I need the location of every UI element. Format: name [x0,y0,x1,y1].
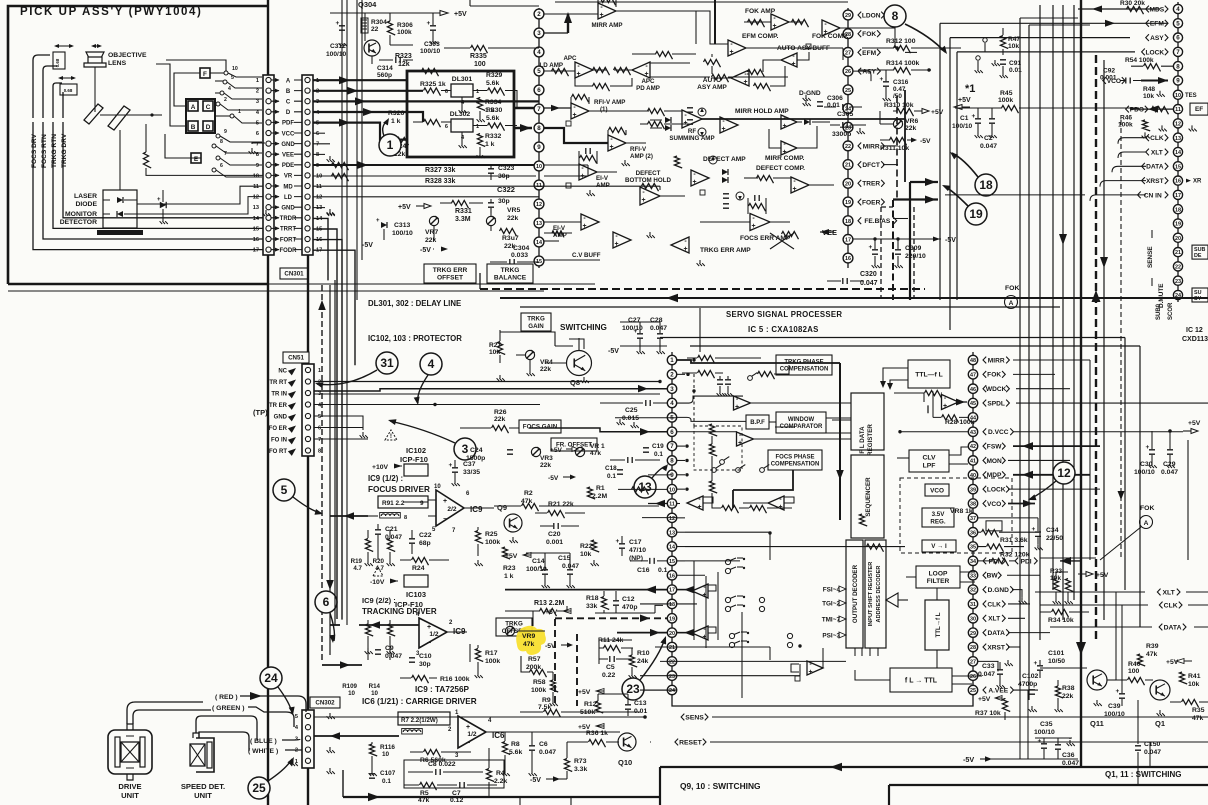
svg-text:XRST: XRST [1146,178,1164,185]
svg-text:100/10: 100/10 [326,51,347,58]
svg-text:0.047: 0.047 [978,671,995,678]
svg-text:+: + [616,538,620,545]
resistor R73 3.3k [564,759,572,772]
callout 23 arrow [640,638,665,680]
svg-text:AUTO ASY BUFF: AUTO ASY BUFF [777,45,830,52]
svg-text:5: 5 [295,714,298,720]
wire VR4 to Q8 base [545,362,566,364]
heavy dashed row y289 [480,288,925,290]
svg-text:APC: APC [641,78,655,85]
connector CN302 strip [302,710,314,768]
svg-text:30p: 30p [419,661,431,668]
svg-text:7: 7 [1176,49,1180,56]
pot VR7 22k [429,216,438,225]
callout 31 [376,352,398,374]
svg-text:C12: C12 [622,596,635,603]
svg-text:IC9 : TA7256P: IC9 : TA7256P [415,685,470,694]
mirror 2 (beam splitter) [108,106,130,130]
wire R2 47k row [522,503,539,511]
svg-text:VCC: VCC [282,131,295,137]
svg-text:R327 33k: R327 33k [425,167,455,174]
svg-text:R46: R46 [1120,114,1132,121]
svg-text:29: 29 [970,631,976,637]
callout 8 [884,5,906,27]
svg-text:Q1: Q1 [1155,719,1165,728]
svg-text:*1: *1 [965,83,975,95]
svg-text:1: 1 [476,89,479,95]
wire r18 c12 rail [595,612,655,614]
right mid box outline [1187,440,1189,560]
wire tracking coil drive [62,92,64,118]
wire pin7 8 [212,144,216,148]
wire focus coil return [43,66,57,118]
svg-text:WINDOW: WINDOW [788,417,815,423]
wires xlt clk data [1035,591,1145,593]
svg-text:C.V BUFF: C.V BUFF [572,252,601,259]
resistor R327 33k [332,162,349,170]
svg-text:-5V: -5V [608,348,619,355]
resistor R18 33k [601,597,609,610]
svg-text:FOK: FOK [862,31,876,38]
wire pin5 row left [615,417,677,419]
svg-text:R38: R38 [1062,685,1075,692]
svg-text:R54 100k: R54 100k [1125,57,1154,64]
capacitor C316 0.47/50 [883,82,889,86]
svg-text:AMP: AMP [596,182,610,189]
svg-text:0.1: 0.1 [607,473,616,480]
svg-text:10: 10 [669,487,675,493]
thick step wire tracking to pin16-ish [322,664,362,666]
svg-text:5: 5 [537,68,541,75]
svg-text:1: 1 [238,109,241,115]
svg-text:R312 100: R312 100 [886,38,916,45]
svg-text:UNIT: UNIT [121,791,139,800]
svg-text:SPEED DET.: SPEED DET. [181,782,225,791]
capacitor C306 0.01 [817,102,823,106]
objective lens [84,52,106,67]
svg-text:17: 17 [253,248,259,254]
wire pin25 avee [1013,689,1038,691]
svg-text:30: 30 [970,616,976,622]
svg-text:D.GND: D.GND [988,587,1009,594]
resistor R57 200k [530,669,547,677]
op-amp after mirror hold [781,115,797,129]
svg-text:GND: GND [274,414,288,420]
svg-text:ASY AMP: ASY AMP [697,84,727,91]
dbh wires [642,183,659,191]
actuator arrows [56,45,72,47]
svg-text:R48: R48 [1143,86,1155,93]
capacitor C313 100/10 diode [381,222,387,228]
svg-text:R36 1k: R36 1k [586,730,608,737]
highlighted pot VR9 47k [516,626,546,655]
svg-text:1/2: 1/2 [429,631,438,638]
wire bus corner top right [1020,17,1078,19]
svg-text:37: 37 [970,516,976,522]
svg-text:FOCUS DRIVER: FOCUS DRIVER [368,485,430,494]
IC5 internal switch row [712,468,717,473]
svg-text:(1): (1) [600,106,608,113]
IC5 wire pin2 to network [677,373,685,375]
svg-text:FSW: FSW [987,443,1002,450]
capacitor C36 0.047 [1055,745,1061,749]
callout 18 [975,174,997,196]
svg-text:46: 46 [970,387,976,393]
svg-text:47k: 47k [1146,651,1158,658]
svg-text:5: 5 [318,414,321,420]
capacitor C16 0.1 [650,558,654,564]
focus driver op amp IC9 big [436,490,464,526]
svg-text:OBJECTIVE: OBJECTIVE [108,52,147,59]
tracking actuator coil 0.68 [60,84,77,95]
svg-text:C34: C34 [1046,527,1059,534]
svg-text:+: + [738,440,742,447]
resistor R21 22k [548,510,565,518]
svg-text:RFI-V: RFI-V [630,146,647,153]
svg-text:C9: C9 [385,645,394,652]
resistor R36 1k [589,739,606,747]
svg-text:15: 15 [669,559,675,565]
svg-text:8: 8 [537,125,541,132]
wire cn51 rows to right [314,381,660,383]
wire pin39 lock [1008,488,1100,490]
svg-text:RFI-V AMP: RFI-V AMP [594,99,625,106]
svg-text:-5V: -5V [362,242,373,249]
svg-text:21: 21 [1175,250,1181,256]
svg-text:C22: C22 [419,532,432,539]
resistor R4 2.2k [486,769,494,782]
svg-text:C316: C316 [893,79,909,86]
wire pin13 long [685,531,770,533]
svg-text:R31 3.6k: R31 3.6k [1000,537,1028,544]
svg-text:31: 31 [380,356,394,370]
svg-text:100k: 100k [531,687,546,694]
svg-text:LDON: LDON [862,12,881,19]
svg-text:27: 27 [845,51,851,57]
capacitor C19 0.1 [643,448,649,452]
svg-text:+: + [599,12,603,19]
svg-text:R12: R12 [584,701,597,708]
bottom right box [889,784,1208,786]
svg-text:LD AMP: LD AMP [540,62,564,69]
wire vertical drops right mid [1115,592,1117,680]
svg-text:C16: C16 [637,567,650,574]
thick up arrow near pin3 [567,14,569,33]
svg-text:R41: R41 [1188,673,1201,680]
svg-text:22k: 22k [425,237,437,244]
svg-text:+: + [972,113,976,120]
svg-text:1: 1 [256,78,259,84]
R91 2.2 box with coil [378,496,428,508]
svg-text:4: 4 [1176,6,1180,13]
svg-text:100/10: 100/10 [952,123,973,130]
monitor detector symbol [117,211,123,217]
svg-text:R16 100k: R16 100k [440,676,470,683]
svg-text:C19: C19 [652,443,664,450]
wire pin25 row gnd [852,89,853,91]
IC5 dashed vline pin2 [693,374,695,426]
svg-text:9: 9 [256,163,259,169]
svg-text:100k: 100k [1118,121,1133,128]
capacitor C7 0.12 [460,782,464,788]
svg-text:R21 22k: R21 22k [548,501,574,508]
IC5 internal block BPF [746,415,769,429]
svg-text:6: 6 [445,89,448,95]
svg-text:R58: R58 [533,679,546,686]
svg-text:SY: SY [1194,296,1202,302]
svg-text:R10: R10 [637,650,650,657]
capacitor C91 0.01 [1000,60,1006,64]
svg-text:R116: R116 [380,744,395,751]
svg-text:+: + [449,462,453,469]
wire row R328 [313,175,536,177]
svg-text:+: + [427,20,431,27]
thick arrow into pin11 pdo [1130,108,1173,110]
svg-text:TRKG DRV: TRKG DRV [61,133,68,168]
resistor R19 R20 4.7 [365,539,373,552]
label CN51 [283,352,309,363]
svg-text:Q8: Q8 [570,378,580,387]
svg-text:IC 5 : CXA1082AS: IC 5 : CXA1082AS [748,325,819,334]
thick wire C to delay line [313,100,539,102]
wire pin29 data row [1008,632,1050,634]
svg-text:10: 10 [1175,93,1181,99]
label CN302 [310,697,340,708]
svg-text:+: + [427,624,431,631]
svg-text:7.5k: 7.5k [538,704,551,711]
svg-text:5.6k: 5.6k [509,749,522,756]
resistor R306 100k [387,21,395,35]
beam path horizontal [100,114,152,116]
svg-text:C314: C314 [377,65,393,72]
svg-text:R3u7: R3u7 [502,235,519,242]
svg-text:13: 13 [669,530,675,536]
resistor R334 1k vertical [477,98,485,111]
wire pin46 wdck long [1016,388,1070,390]
vertical main bus x=308 below CN301 [307,255,309,805]
svg-text:COMPENSATION: COMPENSATION [780,367,829,373]
svg-text:R35: R35 [1192,707,1205,714]
wire pin13 hook to EIV amp [544,232,572,234]
pin column left of RF IC pins 2-15 [534,9,544,19]
svg-text:34: 34 [970,559,976,565]
svg-text:BW: BW [987,573,999,580]
op-amp MIRR COMP [781,141,797,155]
gnd under VR7 area [327,210,335,216]
callout 5 arrow [293,497,321,513]
svg-text:5: 5 [1176,20,1180,27]
svg-text:1 k: 1 k [391,118,401,125]
wire pin3 long row [544,32,568,34]
op-amp APC LD AMP [575,62,593,78]
capacitor C15 0.047 [567,570,573,574]
dashed box around C309 area [880,207,882,299]
svg-text:47k: 47k [590,450,601,457]
thick wire PDF [313,123,407,140]
rfiv2 wires [544,128,608,143]
svg-text:SENSE: SENSE [1147,246,1154,268]
protector warn triangle [385,430,397,440]
resistor R13 2.2M [540,608,557,616]
svg-text:22: 22 [669,659,675,665]
IC5 wire trkg comp to fl register [832,362,840,364]
svg-text:0.047: 0.047 [1144,749,1161,756]
svg-text:REGISTER: REGISTER [867,424,874,456]
svg-text:30p: 30p [498,173,510,180]
callout 31 arrow [317,370,377,385]
svg-text:R20: R20 [373,558,385,565]
svg-text:22k: 22k [494,416,506,423]
wire pin38 vco thick [1008,503,1035,505]
vertical bus x=1040 [1039,5,1041,640]
svg-text:1500p: 1500p [466,455,485,462]
capacitor C18 0.1 [617,470,623,474]
svg-text:R22: R22 [580,543,593,550]
svg-text:33/35: 33/35 [463,469,480,476]
svg-text:+: + [614,241,618,248]
svg-text:C: C [206,104,211,111]
svg-text:PDO: PDO [1130,106,1144,113]
svg-text:10k: 10k [1188,681,1200,688]
transistor Q9 [504,514,522,532]
svg-text:( BLUE ): ( BLUE ) [250,738,277,745]
svg-text:C36: C36 [1062,752,1075,759]
transistor Q1 [1150,680,1170,700]
svg-text:C309: C309 [905,245,921,252]
vertical bus x=957 [956,52,958,300]
vertical dashed bus x=1121 [1120,120,1122,560]
detector element F [200,68,210,78]
svg-text:1: 1 [387,138,394,152]
wire pin16 row [677,574,705,576]
svg-text:PICK UP ASS'Y (PWY1004): PICK UP ASS'Y (PWY1004) [20,6,202,18]
svg-text:NC: NC [278,368,287,374]
amp pin17 left [692,584,708,598]
svg-text:0.68: 0.68 [64,88,73,93]
thick wire A to delay line [313,79,407,81]
svg-text:43: 43 [970,430,976,436]
IC5 rc network pins1-3 [698,355,715,363]
wire pin23 row [640,675,800,677]
svg-text:22k: 22k [1062,693,1074,700]
op-amp EFM COMP [728,40,746,56]
svg-text:ADDRESS DECODER: ADDRESS DECODER [876,566,882,623]
svg-text:18: 18 [1175,207,1181,213]
svg-text:5: 5 [231,75,234,81]
svg-text:C24: C24 [470,447,483,454]
svg-text:1 k: 1 k [504,573,514,580]
svg-text:SERVO SIGNAL PROCESSER: SERVO SIGNAL PROCESSER [726,310,842,319]
wire vr9 net [516,630,545,632]
input shift reg left arrow [886,593,898,607]
pot VR5 22k [486,216,495,225]
wire pin18 right stub [677,603,697,605]
svg-text:R14: R14 [369,683,381,690]
svg-text:2: 2 [224,97,227,103]
svg-text:24k: 24k [637,658,649,665]
svg-text:+: + [751,223,755,230]
wire pin42 fsw arrow [1013,445,1100,447]
svg-text:SUB0: SUB0 [1156,303,1162,320]
transistor Q8 [567,351,592,376]
svg-text:0.47: 0.47 [893,86,906,93]
svg-text:C92: C92 [1103,68,1115,75]
wire CN IN long row [945,194,1085,196]
svg-text:48: 48 [970,358,976,364]
svg-text:MIRR: MIRR [988,357,1005,364]
heavy vertical x894 dashed upper [896,96,898,200]
block 3.5V REG [922,508,954,527]
svg-text:C15: C15 [558,555,571,562]
svg-text:100k: 100k [397,29,412,36]
svg-text:2: 2 [256,89,259,95]
svg-text:R109: R109 [342,683,357,690]
svg-text:220/10: 220/10 [905,253,926,260]
svg-text:16: 16 [1175,179,1181,185]
svg-text:R27: R27 [489,342,501,349]
svg-text:A: A [1009,300,1014,307]
svg-text:DE: DE [1194,253,1202,259]
wire Q304 collector [372,45,413,64]
tracking op amp IC9 2/2 [419,618,447,648]
svg-text:11: 11 [316,184,322,190]
svg-text:R332: R332 [485,133,501,140]
svg-text:+: + [792,186,796,193]
svg-text:−: − [443,516,447,523]
svg-text:SENS: SENS [685,714,704,721]
svg-text:100/10: 100/10 [1034,729,1055,736]
svg-text:R330: R330 [486,107,502,114]
svg-text:OFFSET: OFFSET [437,275,463,282]
R7 2.2 box [398,712,450,725]
svg-text:RESET: RESET [679,739,703,746]
resistor R16 100k [412,675,429,683]
boxed label TRKG GAIN [521,313,551,331]
svg-text:PSI~3: PSI~3 [822,633,840,640]
op-amp DEFECT AMP [691,170,709,186]
svg-text:8: 8 [404,515,407,521]
IC5 internal block SEQUENCER [851,455,884,538]
svg-text:VR 1: VR 1 [590,443,605,450]
svg-text:C27: C27 [628,317,641,324]
svg-text:Q304: Q304 [358,0,377,9]
svg-text:INPUT SHIFT REGISTER: INPUT SHIFT REGISTER [868,562,874,627]
svg-text:SPDL: SPDL [987,400,1005,407]
svg-text:30p: 30p [498,198,510,205]
svg-text:V → I: V → I [931,543,947,550]
svg-text:C303: C303 [424,41,440,48]
svg-text:DL301: DL301 [452,76,473,83]
capacitor C21 0.047 [375,530,381,534]
svg-text:R23: R23 [503,565,516,572]
wire row y558 right bundle [1040,557,1096,559]
wire pin26 asy [853,71,871,81]
thick wire ic6 out row [314,735,399,737]
wire sequencer down to decoders [855,648,878,656]
verticals joining servo title rows [699,308,701,352]
wire q11 rows [1040,667,1087,669]
svg-text:14: 14 [1175,150,1181,156]
svg-text:FOK: FOK [1005,285,1019,292]
op-amp FOK AMP [771,14,789,30]
resistor R58 100k [550,680,558,692]
svg-text:TTL→f L: TTL→f L [935,612,942,637]
vertical bus x=950 [949,38,951,330]
svg-text:R26: R26 [494,409,507,416]
svg-text:10: 10 [253,173,259,179]
svg-text:+5V: +5V [1188,420,1201,427]
svg-text:0.1: 0.1 [658,567,668,574]
